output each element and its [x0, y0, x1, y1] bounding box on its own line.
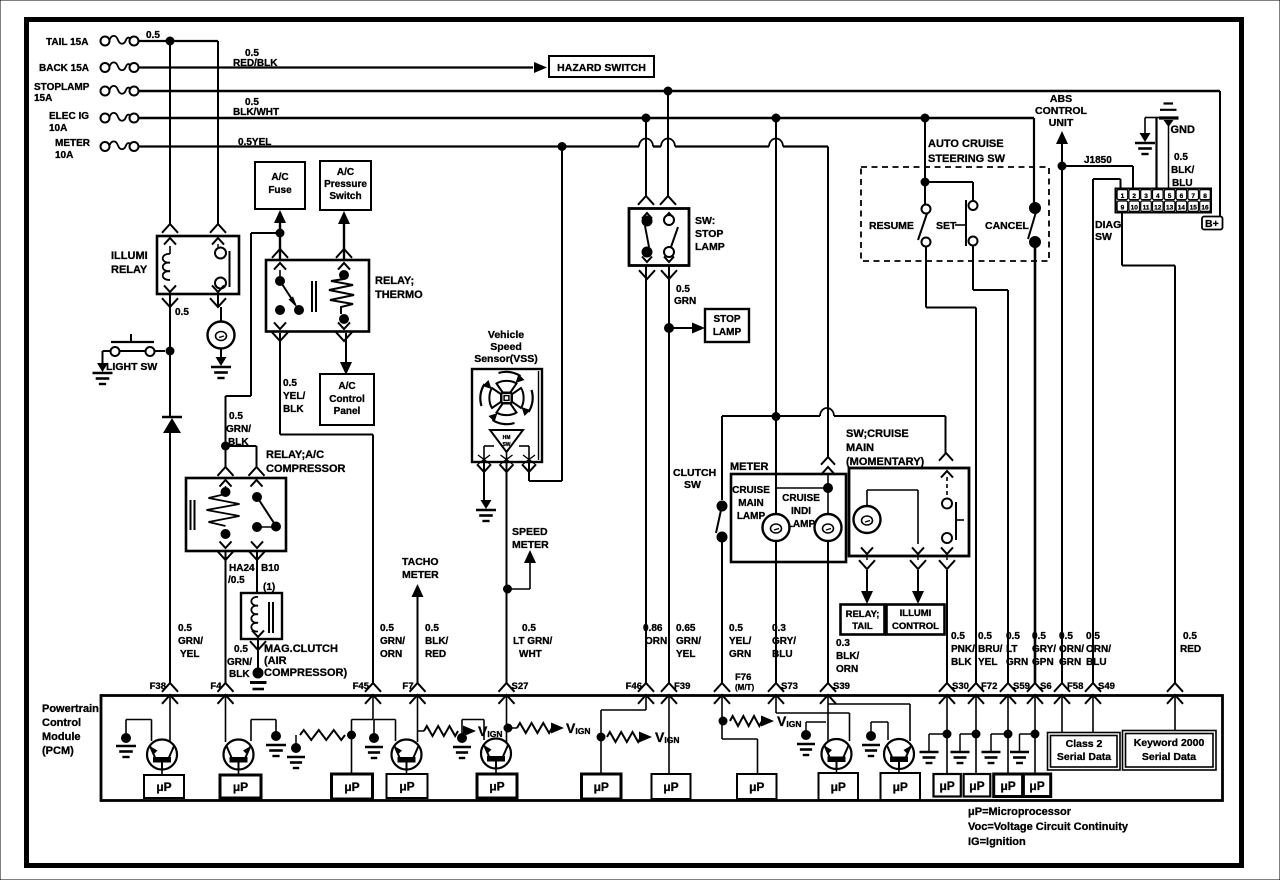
svg-text:YEL: YEL — [978, 657, 997, 668]
svg-text:0.5: 0.5 — [234, 644, 248, 655]
svg-text:F46: F46 — [626, 681, 642, 692]
svg-text:μP: μP — [939, 779, 954, 793]
svg-text:Sensor(VSS): Sensor(VSS) — [474, 353, 538, 365]
svg-text:F4: F4 — [210, 681, 222, 692]
svg-text:12: 12 — [1154, 205, 1162, 212]
svg-text:Keyword 2000: Keyword 2000 — [1134, 737, 1205, 749]
svg-text:μP: μP — [344, 780, 359, 794]
svg-text:4: 4 — [1156, 193, 1160, 200]
svg-text:μP=Microprocessor: μP=Microprocessor — [968, 806, 1072, 818]
svg-text:ILLUMI: ILLUMI — [111, 250, 148, 262]
svg-text:μP: μP — [1029, 779, 1044, 793]
svg-text:S27: S27 — [512, 681, 529, 692]
svg-text:CRUISE: CRUISE — [732, 485, 770, 496]
svg-text:B+: B+ — [1205, 218, 1219, 230]
svg-text:0.5: 0.5 — [1174, 152, 1188, 163]
svg-text:ORN: ORN — [836, 664, 858, 675]
svg-text:RELAY;: RELAY; — [846, 609, 880, 620]
svg-text:μP: μP — [156, 780, 171, 794]
svg-text:RED/BLK: RED/BLK — [233, 58, 278, 69]
svg-text:MAIN: MAIN — [846, 442, 874, 454]
svg-text:0.3: 0.3 — [836, 638, 850, 649]
svg-text:11: 11 — [1143, 205, 1150, 212]
svg-text:GRN/: GRN/ — [178, 636, 203, 647]
svg-text:/0.5: /0.5 — [228, 575, 245, 586]
svg-text:PNK/: PNK/ — [951, 644, 975, 655]
svg-text:UNIT: UNIT — [1049, 117, 1074, 129]
svg-text:RED: RED — [425, 649, 446, 660]
svg-text:SW:: SW: — [695, 215, 715, 227]
svg-text:Vehicle: Vehicle — [488, 329, 524, 341]
svg-text:μP: μP — [1000, 779, 1015, 793]
svg-text:(PCM): (PCM) — [42, 745, 74, 757]
svg-text:15: 15 — [1190, 205, 1198, 212]
svg-text:WHT: WHT — [519, 649, 542, 660]
svg-text:6: 6 — [1180, 193, 1184, 200]
svg-text:GRN/: GRN/ — [226, 424, 251, 435]
svg-text:A/C: A/C — [271, 172, 288, 183]
svg-text:ORN: ORN — [380, 649, 402, 660]
svg-text:μP: μP — [489, 780, 504, 794]
svg-text:F39: F39 — [674, 681, 690, 692]
svg-text:SW;CRUISE: SW;CRUISE — [846, 428, 909, 440]
svg-text:0.5: 0.5 — [522, 623, 536, 634]
svg-text:F76: F76 — [735, 672, 751, 683]
svg-text:0.5: 0.5 — [283, 378, 297, 389]
svg-text:BLU: BLU — [1172, 178, 1193, 189]
svg-text:COMPRESSOR): COMPRESSOR) — [264, 667, 347, 679]
svg-text:0.5: 0.5 — [729, 623, 743, 634]
svg-text:METER: METER — [55, 138, 91, 149]
svg-text:LAMP: LAMP — [695, 241, 725, 253]
svg-text:16: 16 — [1201, 205, 1209, 212]
svg-text:BLK: BLK — [283, 404, 304, 415]
svg-text:HM: HM — [503, 435, 511, 441]
svg-text:(AIR: (AIR — [264, 655, 287, 667]
svg-text:(1): (1) — [263, 582, 275, 593]
svg-text:7: 7 — [1191, 193, 1195, 200]
svg-text:DIAG: DIAG — [1095, 219, 1121, 231]
svg-text:THERMO: THERMO — [375, 289, 423, 301]
svg-text:0.65: 0.65 — [676, 623, 696, 634]
svg-text:0.5: 0.5 — [1086, 631, 1100, 642]
svg-text:RELAY;A/C: RELAY;A/C — [266, 449, 324, 461]
svg-text:μP: μP — [969, 779, 984, 793]
svg-text:GRN/: GRN/ — [380, 636, 405, 647]
svg-text:GRN: GRN — [1006, 657, 1028, 668]
svg-text:0.5: 0.5 — [1183, 631, 1197, 642]
svg-text:Control: Control — [329, 394, 365, 405]
svg-text:0.5: 0.5 — [676, 284, 690, 295]
svg-text:9: 9 — [1121, 205, 1125, 212]
svg-text:13: 13 — [1166, 205, 1174, 212]
svg-text:RESUME: RESUME — [869, 220, 914, 232]
svg-text:STOP: STOP — [695, 228, 723, 240]
svg-text:HAZARD SWITCH: HAZARD SWITCH — [557, 62, 646, 74]
svg-text:TACHO: TACHO — [402, 556, 439, 568]
svg-text:COMPRESSOR: COMPRESSOR — [266, 463, 346, 475]
svg-text:0.5: 0.5 — [1032, 631, 1046, 642]
svg-text:BLU: BLU — [1086, 657, 1107, 668]
svg-text:HA24: HA24 — [229, 563, 255, 574]
svg-text:F45: F45 — [353, 681, 370, 692]
svg-text:S30: S30 — [952, 681, 969, 692]
svg-text:ELEC IG: ELEC IG — [49, 111, 89, 122]
svg-text:0.5: 0.5 — [146, 30, 160, 41]
svg-text:LAMP: LAMP — [737, 511, 766, 522]
svg-text:A/C: A/C — [337, 167, 354, 178]
svg-text:J1850: J1850 — [1084, 155, 1112, 166]
svg-text:SW: SW — [1095, 231, 1112, 243]
svg-text:STOPLAMP: STOPLAMP — [34, 82, 90, 93]
svg-text:LAMP: LAMP — [713, 327, 742, 338]
svg-text:μP: μP — [749, 780, 764, 794]
svg-text:15A: 15A — [34, 93, 52, 104]
svg-text:μP: μP — [399, 780, 414, 794]
svg-text:10: 10 — [1131, 205, 1139, 212]
svg-text:METER: METER — [402, 569, 439, 581]
svg-text:(MOMENTARY): (MOMENTARY) — [846, 456, 925, 468]
svg-text:YEL: YEL — [180, 649, 199, 660]
svg-text:S6: S6 — [1040, 681, 1052, 692]
svg-text:F38: F38 — [150, 681, 166, 692]
svg-text:S39: S39 — [833, 681, 850, 692]
svg-text:μP: μP — [663, 780, 678, 794]
svg-text:Voc=Voltage Circuit Continuity: Voc=Voltage Circuit Continuity — [968, 821, 1129, 833]
svg-text:BLK/WHT: BLK/WHT — [233, 107, 279, 118]
svg-text:BLK: BLK — [228, 437, 249, 448]
svg-text:CONTROL: CONTROL — [892, 621, 939, 632]
svg-text:GND: GND — [1171, 124, 1196, 136]
svg-text:0.5: 0.5 — [951, 631, 965, 642]
svg-text:S73: S73 — [781, 681, 798, 692]
svg-text:Serial Data: Serial Data — [1057, 751, 1111, 763]
svg-text:CANCEL: CANCEL — [985, 220, 1029, 232]
svg-text:AUTO CRUISE: AUTO CRUISE — [928, 138, 1004, 150]
svg-text:ORN/: ORN/ — [1059, 644, 1084, 655]
svg-text:BLK/: BLK/ — [836, 651, 860, 662]
svg-text:0.5YEL: 0.5YEL — [238, 137, 271, 148]
svg-text:Panel: Panel — [334, 406, 361, 417]
svg-text:0.5: 0.5 — [175, 307, 189, 318]
svg-text:ORN: ORN — [645, 636, 667, 647]
svg-text:GPN: GPN — [1032, 657, 1054, 668]
svg-text:STOP: STOP — [713, 314, 740, 325]
svg-text:0.5: 0.5 — [978, 631, 992, 642]
svg-text:BLK: BLK — [229, 669, 250, 680]
svg-text:SW: SW — [502, 442, 510, 448]
svg-text:3: 3 — [1144, 193, 1148, 200]
svg-text:Fuse: Fuse — [268, 185, 292, 196]
svg-text:IG=Ignition: IG=Ignition — [968, 836, 1026, 848]
svg-text:2: 2 — [1132, 193, 1136, 200]
svg-text:ILLUMI: ILLUMI — [900, 608, 932, 619]
svg-text:Module: Module — [42, 731, 81, 743]
svg-text:(M/T): (M/T) — [735, 683, 754, 692]
svg-text:RELAY: RELAY — [111, 264, 148, 276]
svg-text:BLK: BLK — [951, 657, 972, 668]
svg-text:CLUTCH: CLUTCH — [673, 467, 716, 479]
svg-text:ORN/: ORN/ — [1086, 644, 1111, 655]
svg-text:TAIL: TAIL — [852, 621, 873, 632]
svg-text:0.5: 0.5 — [229, 411, 243, 422]
svg-text:METER: METER — [512, 539, 549, 551]
svg-text:SET: SET — [936, 220, 957, 232]
svg-text:Powertrain: Powertrain — [42, 703, 99, 715]
svg-text:B10: B10 — [261, 563, 280, 574]
svg-text:8: 8 — [1203, 193, 1207, 200]
svg-text:GRY/: GRY/ — [772, 636, 796, 647]
svg-text:0.5: 0.5 — [1059, 631, 1073, 642]
svg-text:Switch: Switch — [329, 191, 361, 202]
svg-text:0.5: 0.5 — [178, 623, 192, 634]
svg-text:RELAY;: RELAY; — [375, 275, 414, 287]
svg-text:0.5: 0.5 — [380, 623, 394, 634]
svg-text:Pressure: Pressure — [324, 179, 367, 190]
svg-text:BLK/: BLK/ — [425, 636, 449, 647]
svg-text:BLK/: BLK/ — [1171, 165, 1195, 176]
svg-text:BACK 15A: BACK 15A — [39, 63, 89, 74]
svg-text:F72: F72 — [981, 681, 997, 692]
svg-text:μP: μP — [893, 780, 908, 794]
svg-text:μP: μP — [233, 780, 248, 794]
svg-text:F58: F58 — [1067, 681, 1083, 692]
svg-text:MAG.CLUTCH: MAG.CLUTCH — [264, 643, 338, 655]
svg-text:CONTROL: CONTROL — [1035, 105, 1087, 117]
svg-text:0.5: 0.5 — [1006, 631, 1020, 642]
svg-text:GRN: GRN — [1059, 657, 1081, 668]
svg-text:Control: Control — [42, 717, 81, 729]
svg-text:YEL/: YEL/ — [283, 391, 305, 402]
svg-text:μP: μP — [831, 780, 846, 794]
svg-text:BRU/: BRU/ — [978, 644, 1003, 655]
svg-text:TAIL 15A: TAIL 15A — [46, 37, 88, 48]
svg-text:YEL: YEL — [676, 649, 695, 660]
svg-text:METER: METER — [730, 461, 769, 473]
svg-text:CRUISE: CRUISE — [782, 493, 820, 504]
svg-text:RED: RED — [1180, 644, 1201, 655]
svg-text:GRY/: GRY/ — [1032, 644, 1056, 655]
svg-text:1: 1 — [1121, 193, 1125, 200]
svg-text:LT GRN/: LT GRN/ — [513, 636, 552, 647]
svg-text:SW: SW — [684, 479, 701, 491]
svg-text:LT: LT — [1006, 644, 1017, 655]
svg-text:INDI: INDI — [791, 506, 811, 517]
svg-text:S49: S49 — [1098, 681, 1115, 692]
svg-text:F7: F7 — [402, 681, 413, 692]
svg-text:GRN: GRN — [674, 296, 696, 307]
svg-text:Speed: Speed — [490, 341, 522, 353]
svg-text:Serial Data: Serial Data — [1142, 751, 1196, 763]
svg-text:10A: 10A — [49, 123, 67, 134]
svg-text:Class 2: Class 2 — [1066, 738, 1103, 750]
svg-text:SPEED: SPEED — [512, 526, 548, 538]
svg-text:BLU: BLU — [772, 649, 793, 660]
svg-text:μP: μP — [594, 780, 609, 794]
svg-text:YEL/: YEL/ — [729, 636, 751, 647]
svg-text:STEERING SW: STEERING SW — [928, 153, 1006, 165]
svg-text:MAIN: MAIN — [738, 498, 764, 509]
svg-text:5: 5 — [1168, 193, 1172, 200]
svg-text:0.3: 0.3 — [772, 623, 786, 634]
svg-text:GRN/: GRN/ — [676, 636, 701, 647]
svg-text:10A: 10A — [55, 150, 73, 161]
svg-text:LIGHT SW: LIGHT SW — [106, 361, 157, 373]
svg-text:0.5: 0.5 — [425, 623, 439, 634]
svg-text:LAMP: LAMP — [787, 519, 816, 530]
svg-text:A/C: A/C — [338, 381, 355, 392]
svg-text:14: 14 — [1178, 205, 1186, 212]
svg-text:ABS: ABS — [1050, 93, 1072, 105]
svg-text:GRN/: GRN/ — [227, 657, 252, 668]
svg-text:0.86: 0.86 — [643, 623, 663, 634]
svg-text:GRN: GRN — [729, 649, 751, 660]
